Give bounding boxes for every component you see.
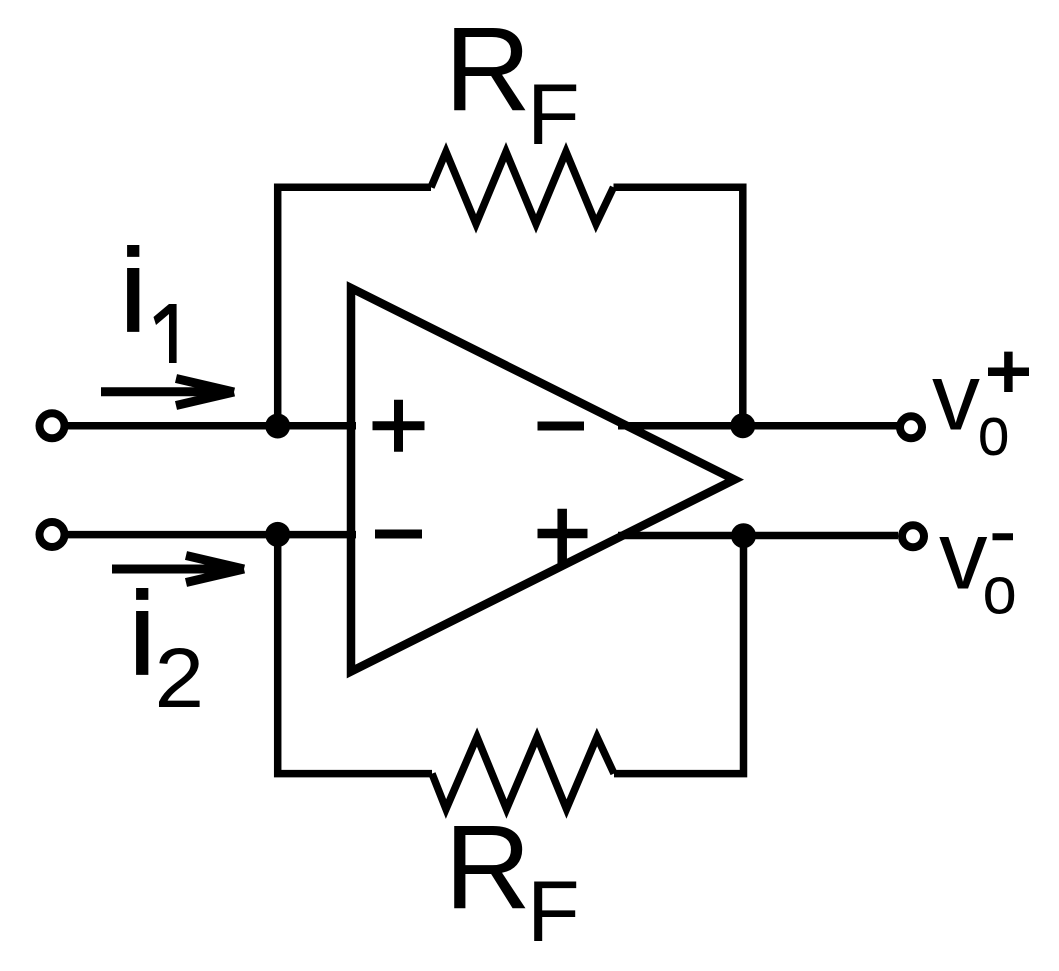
wire: bottom feedback left (vertical down + horizontal) bbox=[278, 535, 432, 774]
node: junction dot top-left bbox=[265, 414, 290, 439]
node: junction dot top-right bbox=[730, 413, 755, 438]
svg-text:i: i bbox=[129, 568, 155, 699]
resistor RF top (zigzag) bbox=[431, 152, 614, 224]
wire: bottom feedback right (horizontal + vertical up) bbox=[614, 536, 744, 774]
wire: top output bbox=[618, 422, 897, 430]
current arrow i2 bbox=[112, 556, 244, 583]
wire: top feedback left (vertical up + horizontal) bbox=[278, 187, 431, 425]
current arrow i1 bbox=[101, 379, 234, 406]
svg-text:i: i bbox=[120, 225, 146, 356]
svg-text:F: F bbox=[527, 67, 580, 163]
input terminal bottom (open circle) bbox=[40, 522, 65, 547]
svg-text:R: R bbox=[444, 2, 531, 136]
node: junction dot bottom-left bbox=[265, 522, 290, 547]
op-amp + (bottom-right) bbox=[538, 509, 588, 564]
input terminal top (open circle) bbox=[40, 413, 65, 438]
op-amp - (bottom-left, inverting in) bbox=[375, 530, 422, 539]
op-amp U1 (triangle) bbox=[351, 288, 735, 672]
wire: top input horizontal bbox=[62, 422, 356, 430]
op-amp + (top-left, non-inverting in) bbox=[373, 400, 425, 452]
resistor RF bottom (zigzag) bbox=[432, 737, 614, 809]
svg-text:o: o bbox=[978, 392, 1010, 470]
wire: bottom output bbox=[618, 532, 898, 540]
svg-text:v: v bbox=[932, 344, 980, 451]
node: junction dot bottom-right bbox=[731, 523, 756, 548]
svg-text:o: o bbox=[983, 552, 1017, 628]
svg-text:F: F bbox=[527, 864, 580, 960]
output terminal top (open circle) bbox=[900, 416, 922, 438]
wire: top feedback right (horizontal + vertical down) bbox=[614, 187, 743, 425]
svg-text:v: v bbox=[939, 501, 988, 610]
svg-text:2: 2 bbox=[155, 631, 205, 725]
wire: bottom input horizontal bbox=[62, 531, 356, 539]
output terminal bottom (open circle) bbox=[902, 525, 924, 547]
op-amp - (top-right, inverted out side) bbox=[538, 422, 585, 431]
svg-text:R: R bbox=[444, 800, 531, 934]
